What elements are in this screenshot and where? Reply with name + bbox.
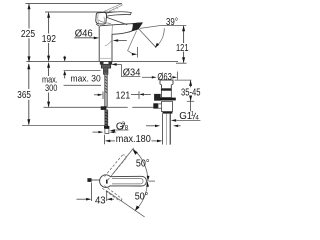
dimension 43 (top view) bbox=[91, 183, 93, 202]
wire: 192 top reference line bbox=[45, 11, 127, 13]
drain body bbox=[162, 90, 172, 97]
svg-text:43: 43 bbox=[95, 195, 106, 206]
svg-text:8: 8 bbox=[125, 125, 129, 132]
drain neck bbox=[162, 85, 172, 89]
upper 50° limit line bbox=[112, 148, 134, 175]
washer below deck bbox=[100, 62, 112, 65]
spout top edge bbox=[100, 23, 142, 26]
wire: leader to aerator bbox=[140, 25, 162, 28]
dashed lever lower position bbox=[102, 186, 122, 202]
wire: outlet axis extension line bbox=[136, 47, 138, 58]
upper 50° arc bbox=[133, 149, 148, 181]
side nub (dark) bbox=[155, 94, 161, 100]
svg-text:300: 300 bbox=[45, 83, 57, 93]
threaded shank bbox=[103, 68, 108, 74]
arc for 39° bbox=[155, 28, 164, 47]
svg-text:121: 121 bbox=[176, 43, 189, 54]
dimension 365 bbox=[28, 64, 30, 125]
ball joint connector bbox=[158, 104, 162, 108]
svg-text:121: 121 bbox=[116, 90, 131, 101]
rod clevis (dark) bbox=[101, 106, 107, 110]
aerator tip (dark) bbox=[132, 23, 143, 32]
spout-body blend curve bbox=[111, 25, 113, 34]
tube arrows pair bbox=[146, 125, 156, 127]
pop-up knob (top view) bbox=[87, 178, 91, 182]
dimension 225 bbox=[28, 4, 30, 61]
label Ø63 with arrows bbox=[142, 76, 153, 78]
dimension max.30 (deck thickness) bbox=[64, 56, 66, 61]
outer tube bbox=[163, 114, 171, 145]
faucet head: cartridge dome bbox=[96, 17, 127, 26]
dimension max.180 bbox=[103, 135, 105, 145]
wire: horizontal pop-up rod line bbox=[44, 106, 128, 108]
coupling nut box bbox=[162, 101, 173, 111]
center tick bbox=[106, 180, 108, 184]
faucet head: lever knob/front body bbox=[96, 12, 107, 24]
dome inner detail bbox=[99, 20, 111, 23]
wire: 365 bottom reference line (to hose end) bbox=[22, 124, 105, 126]
spout underside curve bbox=[112, 31, 132, 34]
svg-text:39°: 39° bbox=[166, 17, 178, 28]
G3/8 nut (dark) bbox=[104, 126, 109, 129]
dimension 121 (middle, reach) bbox=[102, 92, 104, 100]
wire: short reference line for 121 right bottom bbox=[176, 62, 187, 64]
locknut (dark) bbox=[160, 98, 176, 101]
faucet head: open lever (thin outline) bbox=[101, 4, 122, 15]
seal band (dark) bbox=[161, 88, 172, 90]
wire: 225 top reference line bbox=[25, 3, 122, 5]
svg-text:365: 365 bbox=[17, 90, 31, 101]
wire: washer-bottom reference line bbox=[64, 70, 101, 72]
dashed lever upper position bbox=[105, 155, 127, 180]
wire: Ø63 extension line bbox=[177, 72, 179, 80]
top view: faucet body circle bbox=[100, 175, 113, 188]
dimension max.300 (shares axis with 192) bbox=[48, 67, 50, 107]
dimension 192 bbox=[48, 13, 50, 61]
dimension 35-45 bbox=[175, 79, 192, 81]
svg-text:225: 225 bbox=[21, 29, 36, 40]
stub arrows pair bbox=[93, 131, 99, 133]
svg-text:192: 192 bbox=[42, 34, 56, 45]
lower 50° limit line bbox=[106, 191, 144, 217]
inner body curve bbox=[105, 40, 112, 46]
faucet head: closed lever blade bbox=[105, 12, 132, 17]
body right edge bbox=[111, 34, 113, 61]
pull rod / riser bbox=[105, 74, 108, 106]
wire: 39° reference line bbox=[162, 24, 187, 26]
nut bottom strip (dark) bbox=[163, 112, 173, 114]
dimension 121 (right, spout height) bbox=[183, 26, 185, 43]
svg-text:50°: 50° bbox=[136, 159, 150, 170]
wire: deck/mounting surface line bbox=[26, 60, 178, 62]
wire: max.30 underline bbox=[64, 84, 101, 86]
wire: stream line bbox=[139, 29, 157, 48]
tail pipe bbox=[166, 114, 169, 145]
leader from aerator to outlet axis bbox=[128, 31, 137, 54]
arrow at body right edge (Ø46) bbox=[113, 39, 119, 42]
mounting nut bbox=[101, 64, 110, 68]
svg-text:max. 30: max. 30 bbox=[71, 74, 101, 84]
top view lever bbox=[110, 176, 146, 186]
hose stub bbox=[105, 129, 109, 134]
svg-text:max.180: max.180 bbox=[116, 134, 152, 145]
base shadow line bbox=[99, 57, 112, 59]
pop-up waste drain: flange bbox=[160, 80, 173, 84]
lower 50° arc bbox=[135, 181, 147, 210]
braided hose bbox=[105, 110, 108, 127]
ball joint (dark) bbox=[153, 103, 158, 108]
svg-text:50°: 50° bbox=[135, 191, 149, 202]
body left edge bbox=[98, 26, 100, 61]
